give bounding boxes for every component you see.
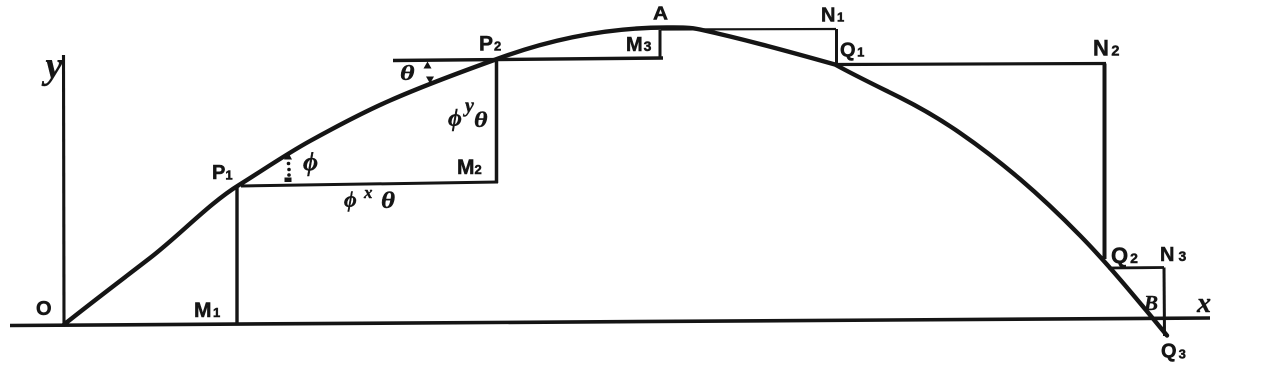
line P1-M2 — [241, 182, 498, 186]
svg-text:y: y — [42, 45, 63, 87]
line Q1-N2 — [838, 64, 1106, 65]
svg-text:M2: M2 — [457, 156, 482, 179]
svg-text:ϕ: ϕ — [344, 187, 357, 212]
svg-text:Q3: Q3 — [1161, 341, 1186, 363]
svg-text:N1: N1 — [821, 5, 844, 27]
line N2-Q2 — [1103, 64, 1107, 260]
horizontal line through P2 — [393, 58, 663, 61]
svg-text:θ: θ — [381, 188, 395, 213]
svg-text:N2: N2 — [1093, 36, 1119, 61]
line N3-Q3 — [1163, 268, 1167, 337]
x-axis — [10, 318, 1210, 326]
svg-text:P1: P1 — [212, 162, 233, 184]
angle theta marks at P2 — [424, 62, 435, 84]
svg-text:O: O — [36, 298, 52, 320]
svg-text:x: x — [1196, 288, 1211, 319]
line P2-M2 — [495, 59, 499, 183]
svg-text:x: x — [363, 183, 373, 202]
line P1-M1 — [235, 186, 238, 324]
svg-text:ϕ: ϕ — [448, 106, 462, 132]
line Q2-N3 — [1108, 266, 1164, 269]
svg-text:N3: N3 — [1160, 244, 1186, 266]
angle phi dotted arc at P1 — [284, 152, 292, 182]
y-axis — [62, 55, 66, 325]
line N1-Q1 — [835, 29, 838, 65]
svg-text:M3: M3 — [626, 34, 652, 56]
svg-text:P2: P2 — [479, 33, 501, 56]
svg-text:A: A — [653, 4, 668, 24]
svg-text:θ: θ — [400, 61, 415, 85]
line A-N1 — [661, 28, 836, 31]
svg-text:Q2: Q2 — [1111, 243, 1138, 268]
svg-text:y: y — [463, 95, 474, 117]
tick M3 — [659, 30, 662, 59]
svg-text:B: B — [1143, 291, 1158, 315]
svg-text:M1: M1 — [194, 299, 220, 322]
svg-text:θ: θ — [474, 107, 488, 132]
svg-text:ϕ: ϕ — [303, 148, 318, 177]
trajectory curve — [64, 27, 1167, 335]
svg-text:Q1: Q1 — [840, 40, 864, 62]
